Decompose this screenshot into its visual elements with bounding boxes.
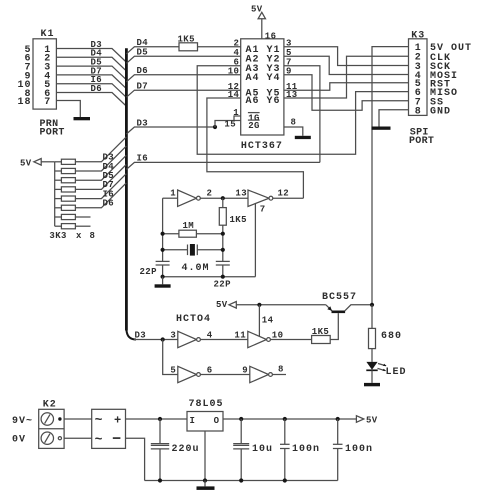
svg-text:D6: D6 — [91, 84, 103, 94]
connector K1 body — [33, 39, 56, 109]
svg-text:100n: 100n — [292, 444, 320, 455]
wire 5V rail to BC557 emitter — [236, 304, 326, 306]
resistor RN4 3K3 — [55, 188, 62, 190]
svg-text:GND: GND — [430, 106, 451, 117]
wire K3 pin6 MISO to A3 — [197, 66, 408, 155]
LED D1 — [366, 362, 377, 370]
svg-text:2: 2 — [207, 189, 213, 199]
svg-text:Y6: Y6 — [267, 96, 281, 107]
capacitor C3 220u — [159, 419, 161, 443]
pullup rail — [54, 162, 56, 226]
wire Y6 back to A3 — [284, 56, 409, 98]
svg-text:1K5: 1K5 — [178, 34, 195, 44]
transistor Q2 collector — [345, 305, 372, 311]
wire K1 pin5 I6 to bus — [56, 84, 126, 98]
svg-text:7: 7 — [260, 205, 266, 215]
junction rail 220u — [158, 478, 162, 482]
resistor RN5 3K3 — [55, 198, 62, 200]
svg-text:1: 1 — [233, 108, 239, 118]
resistor R5 1K5 — [312, 336, 331, 344]
inverter U2A (pins 1,2) — [178, 190, 197, 206]
svg-text:1K5: 1K5 — [230, 215, 247, 225]
capacitor C4 10u — [240, 419, 242, 443]
svg-text:4: 4 — [233, 48, 239, 58]
capacitor C2 22P right — [216, 260, 230, 262]
junction 100n-2 top — [336, 417, 340, 421]
svg-text:9: 9 — [242, 365, 248, 375]
resistor R4 680 — [371, 305, 373, 329]
svg-text:7: 7 — [44, 97, 51, 108]
svg-text:1K5: 1K5 — [312, 327, 329, 337]
junction collector 5V out — [370, 303, 374, 307]
svg-text:22P: 22P — [140, 267, 158, 277]
wire K3 pin1 5V OUT vertical — [372, 47, 409, 305]
junction node 2 — [221, 196, 225, 200]
junction crystal left — [161, 248, 165, 252]
regulator U3 78L05 — [187, 412, 223, 432]
wire oscillator output to A6 — [207, 98, 304, 198]
svg-text:~: ~ — [95, 413, 103, 428]
wire K2 to bridge bottom — [64, 437, 92, 439]
inverter U2C (pins 3,4) — [178, 331, 197, 347]
junction pin14 tap — [257, 303, 261, 307]
capacitor C1 22P left — [156, 260, 170, 262]
junction 100n-1 top — [283, 417, 287, 421]
svg-text:680: 680 — [381, 331, 402, 342]
wire regulator center pin to ground — [204, 431, 206, 481]
wire bus exit D7 to A5 — [126, 90, 240, 97]
K2 terminal screw 1 — [41, 413, 53, 425]
junction crystal right — [221, 248, 225, 252]
wire U1 pin8 to ground — [284, 127, 303, 136]
svg-text:78L05: 78L05 — [189, 399, 224, 410]
wire Y1 to K3 SCK — [284, 47, 409, 66]
wire 1K5 to A1 — [198, 46, 241, 48]
svg-text:18: 18 — [17, 97, 31, 108]
svg-text:+: + — [114, 413, 121, 427]
ground symbol LED — [364, 383, 380, 386]
wire K1 pin4 D7 to bus — [56, 75, 126, 89]
wire Y2 to K3 MOSI — [284, 56, 409, 74]
svg-text:D4: D4 — [137, 38, 149, 48]
wire K1 pin7 to ground — [56, 101, 80, 118]
junction D3 enable — [213, 125, 217, 129]
wire D3 down to U2D — [163, 340, 178, 375]
oscillator left rail — [162, 198, 164, 261]
inverter U2B (pins 13,12) — [248, 190, 269, 206]
crystal Q1 4.0M — [163, 249, 188, 251]
junction 1M left — [161, 232, 165, 236]
svg-text:14: 14 — [262, 316, 274, 326]
bus vertical — [125, 48, 128, 330]
junction rail 10u — [239, 478, 243, 482]
svg-text:D5: D5 — [137, 48, 149, 58]
resistor R1 1K5 — [179, 43, 198, 51]
svg-text:I: I — [190, 416, 196, 426]
svg-text:A6: A6 — [246, 96, 260, 107]
svg-text:~: ~ — [95, 432, 103, 447]
connector K3 body — [409, 39, 428, 116]
5V output arrow — [356, 416, 363, 423]
ground symbol oscillator — [162, 277, 164, 285]
svg-text:D3: D3 — [137, 118, 149, 128]
svg-text:100n: 100n — [345, 444, 373, 455]
junction bottom right — [221, 275, 225, 279]
svg-text:22P: 22P — [214, 279, 232, 289]
svg-text:x: x — [76, 231, 82, 241]
resistor RN3 3K3 — [55, 179, 62, 181]
K2 pin mark 2 — [58, 437, 61, 440]
svg-text:10u: 10u — [252, 444, 273, 455]
svg-text:5V: 5V — [20, 158, 32, 168]
oscillator inverter U2A input wire — [163, 197, 178, 199]
wire regulator output 5V rail — [223, 418, 356, 420]
svg-text:D3: D3 — [135, 330, 147, 340]
inverter U2E (pins 11,10) — [248, 331, 267, 347]
junction D3 split — [161, 337, 165, 341]
wire bus exit D4 — [126, 47, 179, 54]
ground rail bottom — [145, 480, 338, 482]
wire D3 to pin15 — [215, 121, 241, 128]
wire K3 pin8 to ground — [379, 110, 409, 127]
capacitor C5 100n — [284, 419, 286, 444]
svg-text:5: 5 — [170, 365, 176, 375]
wire LED to ground — [371, 370, 373, 383]
svg-text:D7: D7 — [137, 82, 149, 92]
wire Y3 to K3 CLK — [284, 66, 320, 163]
svg-text:10: 10 — [228, 67, 240, 77]
connector K2 body — [39, 409, 64, 448]
svg-text:2: 2 — [233, 39, 239, 49]
svg-text:9V~: 9V~ — [12, 416, 33, 427]
svg-text:12: 12 — [278, 189, 290, 199]
wire K2 to bridge top — [64, 418, 92, 420]
svg-text:D6: D6 — [103, 199, 115, 209]
svg-text:8: 8 — [291, 117, 297, 127]
svg-text:220u: 220u — [172, 444, 200, 455]
resistor R3 1M — [163, 233, 179, 235]
transistor Q2 base bar — [332, 310, 346, 313]
bridge rectifier B1 — [92, 409, 126, 448]
ground symbol K1 — [74, 117, 91, 120]
ground symbol K3 — [372, 127, 391, 130]
IC U1 HCT367 body — [241, 39, 284, 135]
svg-text:I6: I6 — [137, 154, 149, 164]
wire U2C out to U2E in — [200, 339, 247, 341]
svg-text:3K3: 3K3 — [49, 231, 66, 241]
svg-text:LED: LED — [386, 367, 407, 378]
wire U2A out to U2B in — [200, 197, 248, 199]
svg-text:16: 16 — [265, 32, 277, 42]
wire bridge plus to regulator — [126, 418, 188, 420]
wire K1 pin2 D4 to bus — [56, 57, 126, 71]
wire jog to pin1 — [234, 116, 241, 121]
wire K1 pin1 D3 to bus — [56, 49, 126, 63]
resistor R2 1K5 vertical — [222, 198, 224, 207]
wire K1 pin3 D5 to bus — [56, 66, 126, 80]
svg-text:8: 8 — [415, 106, 422, 117]
svg-text:K2: K2 — [43, 399, 57, 410]
resistor RN8 3K3 spare — [55, 225, 62, 227]
bus bottom curve into D3 wire — [126, 329, 136, 340]
svg-text:PORT: PORT — [409, 136, 434, 147]
resistor RN1 3K3 — [55, 161, 62, 163]
wire bus exit D3 to enables — [126, 127, 215, 134]
svg-text:1M: 1M — [183, 221, 195, 231]
wire base to 1K5 — [330, 313, 338, 339]
wire D3 to inverter U2C — [134, 339, 178, 341]
svg-text:BC557: BC557 — [322, 292, 357, 303]
resistor RN2 3K3 — [55, 170, 62, 172]
resistor RN7 3K3 spare — [55, 216, 62, 218]
wire Y4 to K3 RST — [284, 75, 409, 110]
transistor Q2 BC557 emitter — [326, 305, 332, 311]
wire pin 7 to ground rail — [254, 203, 256, 277]
svg-text:15: 15 — [224, 119, 236, 129]
capacitor C6 100n — [337, 419, 339, 444]
wire U2F output stub — [272, 374, 286, 376]
wire bus exit D5 to A2 — [126, 56, 240, 63]
K2 pin mark 1 — [58, 417, 61, 420]
resistor RN6 3K3 — [55, 207, 62, 209]
svg-text:11: 11 — [234, 330, 246, 340]
wire Y5 to K3 SS — [284, 83, 409, 91]
inverter U2D (pins 5,6) — [178, 366, 197, 382]
svg-text:0V: 0V — [12, 434, 26, 445]
svg-text:5V: 5V — [216, 300, 228, 310]
wire U2D out to U2F in — [200, 374, 249, 376]
svg-text:A4: A4 — [246, 73, 260, 84]
wire bus exit D6 to A4 — [126, 75, 240, 82]
svg-text:2G: 2G — [248, 121, 260, 131]
K2 terminal screw 2 — [41, 432, 53, 444]
wire bridge minus to ground rail — [126, 438, 145, 480]
svg-text:1: 1 — [170, 189, 176, 199]
svg-text:HCTO4: HCTO4 — [176, 314, 211, 325]
junction 1M right — [221, 232, 225, 236]
wire K1 pin6 D6 to bus — [56, 93, 126, 107]
ground symbol PSU — [204, 481, 206, 487]
junction bottom left — [161, 275, 165, 279]
svg-text:4.0M: 4.0M — [182, 263, 210, 274]
svg-text:8: 8 — [278, 365, 284, 375]
svg-text:5V: 5V — [366, 415, 378, 425]
wire U2E out to 1K5 — [270, 339, 311, 341]
oscillator bottom rail — [163, 276, 256, 278]
svg-text:13: 13 — [235, 189, 247, 199]
junction 220u top — [158, 417, 162, 421]
junction rail 100n — [283, 478, 287, 482]
svg-text:8: 8 — [90, 231, 96, 241]
ground symbol U1 pin8 — [295, 136, 311, 139]
svg-text:D6: D6 — [137, 66, 149, 76]
wire bus exit I6 to K3 MISO — [126, 162, 320, 169]
junction rail regulator — [203, 478, 207, 482]
junction 10u top — [239, 417, 243, 421]
wire pin 14 supply — [258, 305, 260, 336]
inverter U2F (pins 9,8) — [250, 366, 269, 382]
svg-text:HCT367: HCT367 — [241, 141, 283, 152]
svg-text:Y4: Y4 — [267, 73, 281, 84]
wire U2B output — [273, 197, 304, 199]
svg-text:3: 3 — [170, 330, 176, 340]
svg-text:PORT: PORT — [40, 127, 65, 138]
svg-text:O: O — [214, 416, 220, 426]
